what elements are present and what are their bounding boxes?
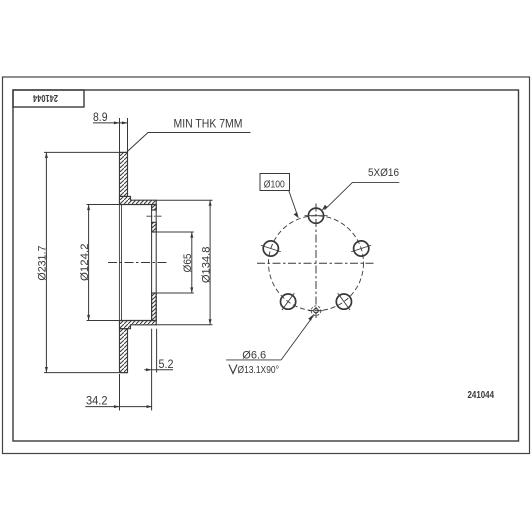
svg-text:5.2: 5.2 bbox=[159, 357, 174, 371]
svg-text:241044: 241044 bbox=[468, 389, 495, 401]
svg-text:MIN THK 7MM: MIN THK 7MM bbox=[174, 117, 243, 131]
svg-text:Ø100: Ø100 bbox=[264, 178, 285, 190]
svg-text:Ø124.2: Ø124.2 bbox=[79, 244, 91, 282]
svg-text:34.2: 34.2 bbox=[86, 394, 108, 408]
svg-text:5XØ16: 5XØ16 bbox=[368, 167, 399, 179]
svg-text:Ø134.8: Ø134.8 bbox=[200, 247, 212, 284]
svg-text:Ø13.1X90°: Ø13.1X90° bbox=[238, 364, 280, 376]
svg-text:Ø65: Ø65 bbox=[182, 254, 194, 273]
svg-text:8.9: 8.9 bbox=[93, 110, 108, 124]
svg-text:241044: 241044 bbox=[33, 92, 58, 103]
svg-text:Ø231.7: Ø231.7 bbox=[37, 246, 49, 281]
